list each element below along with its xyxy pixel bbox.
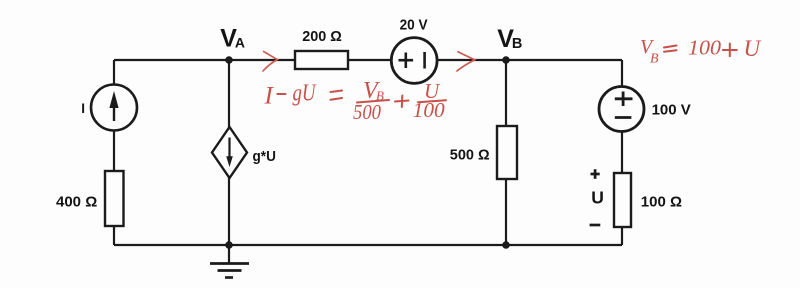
svg-text:I: I: [81, 101, 85, 116]
svg-text:B: B: [650, 51, 659, 66]
svg-text:U: U: [591, 187, 604, 207]
svg-text:U: U: [744, 36, 762, 61]
svg-text:500 Ω: 500 Ω: [450, 148, 490, 164]
svg-text:500: 500: [353, 100, 381, 124]
svg-text:200 Ω: 200 Ω: [302, 29, 342, 45]
svg-text:gU: gU: [293, 81, 317, 107]
svg-text:g*U: g*U: [253, 148, 276, 165]
svg-text:100 Ω: 100 Ω: [641, 193, 682, 210]
svg-text:400 Ω: 400 Ω: [56, 193, 97, 210]
svg-text:20 V: 20 V: [400, 17, 428, 33]
svg-text:A: A: [235, 34, 245, 50]
svg-text:100: 100: [688, 36, 721, 60]
svg-text:100 V: 100 V: [652, 101, 691, 118]
svg-text:B: B: [512, 36, 522, 52]
